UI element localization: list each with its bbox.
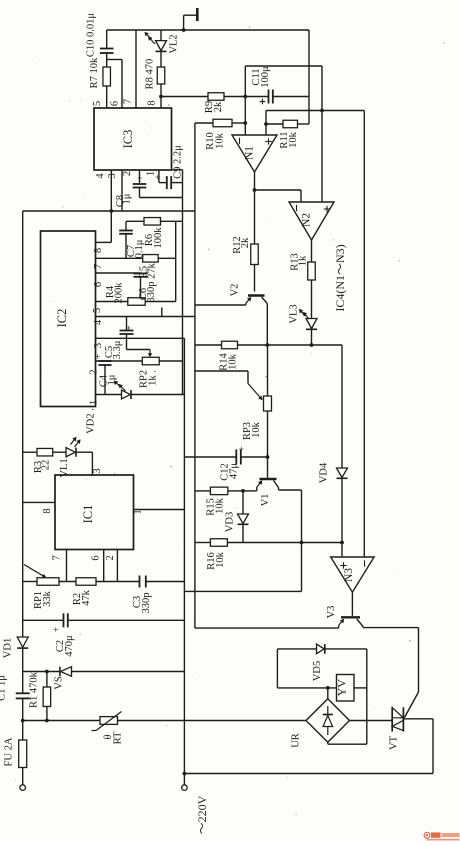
diode VD4 [319,345,348,557]
svg-text:VS: VS [54,676,65,690]
capacitor C1 [0,675,30,740]
svg-text:FU 2A: FU 2A [4,737,15,766]
wire VD5 left leg [276,649,278,688]
resistor R6 row [126,218,183,249]
pin 2 label IC3 [122,171,133,176]
wire IC1 pin2 stub [116,550,118,582]
svg-text:YV: YV [335,679,349,697]
svg-text:1k .: 1k . [148,370,159,386]
svg-text:33k: 33k [42,590,53,607]
sensor vertical [183,338,185,785]
wire IC2 pin4 row [96,316,195,318]
capacitor C4 [93,353,118,394]
wire R5 right vertical [175,221,177,301]
svg-text:VT: VT [389,735,400,750]
wire YV right [354,687,367,689]
pin 4 label IC2 [93,319,104,325]
wire RP1 to R2 [59,581,76,583]
svg-text:3: 3 [92,468,103,473]
potentiometer RP1 [24,565,59,610]
svg-text:100k: 100k [153,227,164,249]
pin 6 label IC1 [91,555,102,560]
svg-text:VL3: VL3 [289,304,300,323]
svg-text:+: + [52,626,63,632]
wire node to C11 [245,96,268,98]
wire C10 to R7 [106,53,108,67]
wire R14 row left [195,344,222,346]
wire N1 minus stub [244,97,246,136]
svg-text:3: 3 [93,343,104,348]
LED VL3 [289,304,318,329]
node R9 C11 junction [243,95,247,99]
pin 1 label IC3 [146,171,157,176]
capacitor C7 [119,221,145,258]
label 220V [195,795,209,834]
svg-text:5: 5 [92,101,103,106]
svg-text:C10 0.01μ: C10 0.01μ [86,13,97,58]
wire IC2 pin2 row [96,360,143,362]
left bus upper [22,211,24,637]
wire V1 emitter to R15 node [243,490,257,492]
resistor R13 [290,240,316,280]
svg-text:～220V: ～220V [195,795,209,834]
svg-text:+: + [136,175,147,181]
svg-text:100μ: 100μ [260,66,271,88]
svg-text:7: 7 [123,99,134,104]
wire R16 row right [227,542,342,544]
pin 2 label IC2 [89,369,100,374]
wire IC3 pin2 to C8 [139,170,141,184]
svg-text:5: 5 [92,308,103,313]
transistor V3 [326,592,363,628]
pin 3 label IC1 [92,468,103,473]
svg-text:4: 4 [95,173,106,179]
resistor R16 [195,539,228,570]
wire pin6 jog [107,60,122,109]
svg-text:R8 470: R8 470 [145,59,156,90]
wire C12 row [184,456,267,458]
wire N1 to N2 minus [255,190,302,202]
wire YV row left [277,687,336,689]
capacitor C9 [154,145,184,189]
pin 6 label IC3 [110,101,121,106]
transistor V1 [257,457,279,506]
wire VT right [403,718,433,720]
capacitor C3 [132,576,184,614]
wire IC2 pin3 row [96,337,185,339]
diode VD5 [277,644,366,681]
svg-text:V1: V1 [260,494,271,507]
wire R2 to C3 [96,581,140,583]
svg-text:IC2: IC2 [55,309,69,328]
wire C11 right vertical [308,97,310,125]
wire VL2 to R8 [160,51,162,67]
wire UR bottom [328,742,367,744]
pin 6 label IC2 [93,282,104,287]
wire R14 row right [238,344,343,346]
wire UR right to VT [350,720,393,722]
svg-text:10k: 10k [215,497,226,514]
svg-text:2k: 2k [240,237,251,248]
svg-text:V2: V2 [230,284,241,297]
svg-text:7: 7 [52,555,63,560]
svg-text:2k: 2k [213,101,224,112]
svg-text:330p: 330p [141,593,152,614]
solenoid YV [335,675,355,702]
wire IC2 pin8 stub [96,211,112,242]
svg-text:2: 2 [105,555,116,560]
bus mid vertical [194,123,196,628]
svg-text:RT: RT [113,731,124,744]
node N1 output branch [253,188,257,192]
diode VD3 [225,491,249,543]
wire pin8 row [161,96,208,98]
thermistor RT [92,712,124,745]
wire VL3 to row [311,329,313,345]
wire V3 row [195,627,339,629]
resistor R14 [219,341,239,371]
stub x161 [161,308,163,317]
pin 7 label IC1 [52,555,63,560]
svg-text:330p: 330p [146,282,157,303]
capacitor C2 row [23,613,185,656]
svg-text:+: + [124,325,135,331]
wire VS row [23,671,60,673]
wire right vertical x182 [182,221,184,394]
IC U-IC3 [94,108,172,170]
svg-text:N1: N1 [244,146,256,160]
resistor R2 [72,578,96,606]
capacitor C11 [251,66,273,104]
capacitor C12 [220,446,248,481]
LED VD2 [86,381,185,434]
pin 5 label IC2 [92,308,103,313]
terminal left [20,785,26,791]
wire output row 591 [184,590,301,592]
wire C10 column top [106,30,108,49]
svg-text:N3: N3 [343,568,355,582]
svg-text:10k: 10k [251,421,262,438]
node feedback N2 junction [320,109,324,113]
svg-text:C1 1μ: C1 1μ [0,675,8,701]
capacitor C8 [115,175,147,207]
svg-text:2: 2 [122,171,133,176]
potentiometer RP2 [139,357,183,388]
wire V3 right to gate column [363,628,419,718]
resistor R15 [195,487,243,516]
node V2 collector row [265,343,269,347]
svg-text:VD3: VD3 [225,512,236,532]
terminal right [182,785,188,791]
pin 8 label IC1 [42,508,53,513]
svg-text:47k: 47k [81,589,92,606]
wire R9 to node [224,96,245,98]
resistor R11 [266,120,309,148]
IC U-IC1 [55,475,134,550]
resistor R1 [29,670,51,723]
LED VL1 [53,438,93,478]
pin 7 label IC3 [123,99,134,104]
wire IC2 pin7 row [96,257,143,259]
node V1 collector R16 row [300,541,304,545]
svg-text:8: 8 [147,100,158,105]
resistor R9 [204,93,224,113]
wire long feedback to N3 [363,111,365,558]
wire N1 output [254,172,256,244]
wire V1 collector [279,490,302,591]
op-amp N3 [331,557,374,592]
wire R7 to pin5 [106,86,108,108]
svg-text:1: 1 [89,400,100,405]
triac VT [389,707,404,750]
potentiometer RP3 [242,345,272,457]
pin 2 label IC1 [105,555,116,560]
pin 3 label IC3 [107,173,118,178]
wire IC1 pin6 stub [103,550,105,582]
fuse FU [4,737,27,785]
rectifier UR [291,699,350,748]
svg-text:VL2: VL2 [169,34,180,53]
svg-text:+: + [237,446,248,452]
svg-text:8: 8 [42,508,53,513]
resistor R5 [139,255,176,279]
wire R8 to pin8 [160,84,162,108]
svg-text:0.1μ: 0.1μ [134,239,145,258]
svg-text:UR: UR [291,733,302,748]
svg-text:470μ: 470μ [64,635,75,657]
pin 7 label IC2 [93,264,104,269]
watermark logo [424,832,459,840]
wire IC2 pin5 row [96,301,128,303]
capacitor C10 [86,13,114,58]
IC4 label [333,244,347,311]
wire IC3 pin3 down [121,170,123,211]
capacitor C5 [104,317,135,360]
svg-text:6: 6 [93,282,104,287]
IC U-IC2 [41,231,96,407]
svg-text:3.3μ: 3.3μ [112,340,123,359]
node R10 right junction [243,121,247,125]
wire IC3 corner stub [172,170,183,183]
node return junction [183,772,187,776]
svg-text:8: 8 [93,248,104,253]
svg-text:IC1: IC1 [81,505,95,524]
node UR top junction [326,686,330,690]
resistor R10 [195,119,245,150]
node main row left [21,719,25,723]
wire N1 plus stub [265,111,267,136]
diode VD1 [3,637,29,693]
node C12 junction [266,455,270,459]
svg-text:3: 3 [107,173,118,178]
pin 3 label IC2 [93,343,104,348]
wire RP3 wiper row [195,371,248,384]
svg-text:V3: V3 [326,606,337,619]
svg-text:VD1: VD1 [3,638,14,658]
node R11 left junction [264,122,268,126]
wire R12 to V2 base [254,265,256,292]
svg-text:10k: 10k [215,132,226,149]
svg-text:4: 4 [93,319,104,325]
pin 4 label IC3 [95,173,106,179]
svg-text:10k: 10k [215,551,226,568]
svg-text:47μ: 47μ [229,463,240,480]
node VL3 row junction [310,343,314,347]
node VD4 R16row [340,541,344,545]
svg-text:1k: 1k [298,255,309,266]
pin 1 label IC2 [89,400,100,405]
LED VL2 [145,30,180,54]
pin 1 label IC1 [133,509,144,514]
wire main row [23,720,306,722]
wire IC3 pin4 down [110,170,112,211]
wire row581 left [23,581,37,583]
svg-text:200k: 200k [114,282,125,304]
capacitor C6 [134,274,158,303]
node VD3 top [241,489,245,493]
svg-text:IC3: IC3 [121,130,135,149]
svg-text:2: 2 [89,369,100,374]
wire feedback row [266,110,364,112]
wire IC2 pin6 row [96,272,141,274]
resistor R8 [145,59,165,90]
wire IC1 pin8 row [23,501,55,503]
svg-text:R7 10k: R7 10k [89,57,100,88]
svg-text:VD2 .: VD2 . [86,408,97,434]
op-amp N2 [289,202,334,240]
wire VL1 row [23,451,37,453]
pin 8 label IC2 [93,248,104,253]
resistor R3 [33,448,53,473]
resistor R4 [105,282,176,306]
wire IC2 pin1 row [96,394,122,396]
svg-text:6: 6 [91,555,102,560]
svg-text:22: 22 [41,460,52,471]
wire pin7 column [135,30,137,108]
wire IC1 pin1 row [134,509,185,511]
wire top rail [107,29,309,31]
pin 8 label IC3 [147,100,158,105]
wire C11 top jog [245,66,322,97]
wire N2 plus column [321,66,323,202]
wire VD5 right leg [366,649,368,744]
svg-text:IC4(N1～N3): IC4(N1～N3) [333,244,347,311]
pin 5 label IC3 [92,101,103,106]
wire C11 to rail corner [273,30,309,97]
node pin4 row junction [109,209,113,213]
svg-text:R1 470k: R1 470k [29,671,40,708]
svg-text:7: 7 [93,264,104,269]
svg-text:+: + [154,174,165,180]
wire C8 bottom jog [140,188,183,198]
ground [184,8,198,30]
svg-text:1: 1 [133,509,144,514]
wire y211 row [23,210,195,212]
svg-text:6: 6 [110,101,121,106]
svg-text:VD5: VD5 [312,661,323,681]
svg-text:VD4: VD4 [319,462,330,483]
resistor R7 [89,57,110,88]
node R8 pin8 junction [159,95,163,99]
wire UR top [327,688,329,699]
resistor R12 [232,236,258,264]
wire IC1 pin7 stub [66,550,68,582]
wire V2 emitter row [195,304,246,306]
transistor V2 [230,284,268,345]
wire VT return [184,719,433,774]
svg-text:27k: 27k [147,262,158,279]
op-amp N1 [232,135,277,172]
svg-text:+: + [93,353,104,359]
wire C9 to right vertical [171,183,182,222]
wire RP2 wiper [127,338,152,356]
wire VL1 to pin3 [91,452,93,475]
svg-text:10k: 10k [228,353,239,370]
diode VS [54,667,185,690]
wire IC3 pin1 to C9 [159,170,166,183]
svg-text:N2: N2 [301,213,313,227]
svg-text:1μ: 1μ [122,193,133,204]
node top-rail ground junction [182,28,186,32]
svg-text:10k: 10k [288,131,299,148]
wire R13 to VL3 [311,280,313,319]
